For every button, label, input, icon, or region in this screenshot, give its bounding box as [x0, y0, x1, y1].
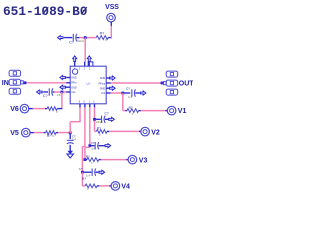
- wire U1 row4 right: [111, 92, 124, 94]
- svg-text:2: 2: [79, 68, 81, 70]
- lead R12 right: [107, 130, 109, 132]
- capacitor C3: [131, 89, 133, 96]
- off-page arrow A1 (left): [58, 36, 64, 40]
- off-page arrow A6 (right): [99, 170, 105, 174]
- resistor R12: [96, 130, 107, 134]
- wire V1 vertical: [122, 93, 124, 111]
- lead R11 right: [139, 110, 141, 112]
- connector J-V3: [128, 155, 137, 164]
- off-page arrow R2: [110, 86, 116, 90]
- wire to V2: [109, 130, 141, 132]
- lead arrow-C1: [64, 37, 72, 39]
- resistor R13: [87, 158, 99, 162]
- wire V1 corner: [123, 110, 127, 112]
- svg-text:R?: R?: [129, 106, 133, 110]
- off-page arrow L1: [60, 76, 66, 80]
- lead V3: [126, 159, 128, 161]
- wire pinA left: [70, 121, 80, 123]
- wire V5: [34, 132, 44, 134]
- resistor R11: [127, 109, 139, 113]
- svg-text:C?: C?: [91, 141, 95, 145]
- U1 pin1 indicator circle: [72, 69, 77, 74]
- svg-text:GND: GND: [71, 86, 77, 89]
- svg-text:Vc1: Vc1: [71, 91, 76, 94]
- wire V4 corner: [82, 185, 85, 187]
- connector IN box2: [9, 79, 21, 85]
- junction top: [84, 36, 87, 39]
- svg-text:R?: R?: [47, 134, 51, 138]
- U1 top pin stub 2: [84, 62, 86, 67]
- wire IN to U1: [23, 82, 66, 84]
- svg-text:OUT: OUT: [179, 81, 193, 88]
- svg-text:2: 2: [89, 68, 91, 70]
- wire C1-R1: [79, 37, 96, 39]
- arrow up pin3: [87, 56, 91, 62]
- svg-text:R?: R?: [97, 126, 101, 130]
- wire pinB down: [84, 107, 86, 147]
- wire arrow row1: [64, 77, 67, 79]
- svg-text:GND: GND: [100, 87, 106, 90]
- resistor R14: [85, 184, 97, 188]
- wire pinD down: [94, 107, 96, 131]
- lead VSS: [110, 22, 112, 27]
- svg-text:100pF: 100pF: [77, 39, 85, 43]
- wire to IC top pin: [84, 38, 86, 62]
- wire pinC down: [89, 107, 91, 147]
- wire to V3: [101, 159, 128, 161]
- lead C2 right: [53, 91, 55, 93]
- arrow up pin1: [73, 56, 77, 62]
- junction C7 node: [81, 171, 84, 174]
- resistor R5: [46, 131, 56, 135]
- capacitor C7: [91, 169, 93, 176]
- lead R1 right: [108, 37, 112, 39]
- U1 bottom pinD lead: [94, 104, 96, 108]
- svg-text:RFin: RFin: [71, 82, 77, 85]
- wire R5 to node: [58, 132, 70, 134]
- connector IN box1: [9, 70, 21, 76]
- connector OUT box1: [166, 71, 178, 77]
- U1 bottom pinC lead: [89, 104, 91, 108]
- lead C6 left: [91, 145, 94, 147]
- capacitor C2: [48, 88, 50, 95]
- lead C3 right: [135, 92, 139, 94]
- wire pinC jog: [85, 146, 90, 148]
- lead R13 right: [99, 159, 101, 161]
- wire V6: [33, 108, 46, 110]
- svg-text:V4: V4: [121, 184, 130, 191]
- capacitor C1: [72, 34, 74, 41]
- lead C7 left: [84, 171, 92, 173]
- svg-text:RFout: RFout: [99, 83, 106, 86]
- wire pinB down3: [81, 172, 83, 186]
- capacitor C5 (to gnd): [67, 139, 74, 141]
- lead R13 left: [85, 159, 87, 161]
- connector OUT box3: [166, 89, 178, 95]
- svg-text:R?: R?: [100, 32, 105, 36]
- lead V5: [30, 132, 34, 134]
- svg-text:100pF: 100pF: [96, 120, 104, 124]
- wire V2 corner: [95, 130, 97, 132]
- capacitor C6: [94, 142, 96, 149]
- svg-text:VSS: VSS: [105, 4, 119, 11]
- svg-text:0: 0: [52, 134, 54, 138]
- U1 left lead row4: [66, 91, 70, 93]
- op-amp U1 body: [70, 66, 106, 104]
- svg-text:0: 0: [91, 161, 93, 165]
- off-page arrow A3 (right): [140, 91, 146, 95]
- U1 bottom pinB lead: [84, 104, 86, 108]
- svg-text:C?: C?: [43, 94, 48, 98]
- wire pinC down2: [84, 147, 86, 159]
- lead C5 bottom: [69, 145, 71, 151]
- svg-text:IN: IN: [2, 80, 9, 87]
- wire pinA down: [79, 107, 81, 122]
- junction C4 node: [93, 118, 96, 121]
- ground: [67, 151, 73, 154]
- junction V1 node: [121, 92, 124, 95]
- lead R5 right: [56, 132, 58, 134]
- lead R11 left: [125, 110, 127, 112]
- U1 right lead row3: [106, 87, 111, 89]
- svg-text:C?: C?: [105, 111, 109, 115]
- connector J-V6: [20, 104, 29, 113]
- svg-text:V3: V3: [139, 157, 148, 164]
- off-page arrow R1: [110, 76, 116, 80]
- lead C3 left: [124, 92, 130, 94]
- svg-text:C?: C?: [126, 87, 130, 91]
- junction V5 node: [69, 131, 72, 134]
- wire to V1: [141, 110, 167, 112]
- connector J-V2: [141, 127, 150, 136]
- connector J-V5: [22, 128, 31, 137]
- connector J-V4: [111, 182, 120, 191]
- lead R14 right: [97, 185, 99, 187]
- svg-text:V6: V6: [10, 106, 19, 113]
- U1 right lead row2: [106, 82, 111, 84]
- svg-text:1nF: 1nF: [86, 174, 91, 178]
- lead C6 right: [99, 145, 105, 147]
- off-page arrow L2: [60, 85, 66, 89]
- wire V6 vertical: [61, 92, 63, 109]
- svg-text:Vc2: Vc2: [101, 92, 106, 95]
- svg-text:2: 2: [84, 68, 86, 70]
- connector OUT pin tab: [164, 81, 167, 84]
- lead R5 left: [44, 132, 46, 134]
- wire to V4: [99, 185, 111, 187]
- svg-text:R?: R?: [86, 155, 90, 159]
- lead C4 right: [105, 118, 109, 120]
- U1 left lead row3: [66, 86, 70, 88]
- U1 top bracket pin: [88, 62, 93, 66]
- connector IN box3: [9, 88, 21, 94]
- capacitor C4: [101, 116, 103, 123]
- off-page arrow A2 (left): [37, 90, 43, 94]
- resistor R6: [47, 107, 57, 111]
- svg-text:GND: GND: [71, 77, 77, 80]
- lead C7 right: [96, 171, 99, 173]
- connector OUT box2: [166, 80, 178, 86]
- svg-text:R?: R?: [82, 177, 86, 181]
- lead C5 top: [69, 134, 71, 139]
- svg-text:C?: C?: [79, 167, 83, 171]
- lead V1: [165, 110, 167, 112]
- U1 left lead row1: [66, 77, 70, 79]
- wire VSS vertical: [110, 26, 112, 38]
- svg-text:0: 0: [99, 133, 101, 137]
- wire C2 to U1: [54, 91, 66, 93]
- svg-text:0: 0: [56, 110, 58, 114]
- wire pinB down2: [81, 146, 83, 172]
- svg-text:V1: V1: [178, 108, 187, 115]
- U1 bottom pinA lead: [79, 104, 81, 108]
- off-page arrow A4 (right): [109, 117, 115, 121]
- svg-text:C?: C?: [69, 41, 74, 45]
- lead C1 right: [77, 37, 80, 39]
- connector J-VSS: [107, 13, 116, 22]
- off-page arrow A5 (right): [105, 144, 111, 148]
- lead arrow-C2: [43, 91, 48, 93]
- lead V4: [109, 185, 111, 187]
- connector IN pin tab: [21, 81, 24, 84]
- U1 left lead row2: [66, 82, 70, 84]
- wire pinA to V5 node: [69, 122, 71, 134]
- lead R6 right: [57, 108, 62, 110]
- lead V6: [29, 108, 33, 110]
- connector J-V1: [167, 106, 176, 115]
- junction OUT: [161, 82, 164, 85]
- wire U1 to OUT: [111, 82, 164, 84]
- junction IN: [24, 81, 27, 84]
- U1 right lead row4: [106, 92, 111, 94]
- U1 right lead row1: [106, 77, 111, 79]
- U1 top pin stub 3: [88, 61, 90, 66]
- junction V6 node: [61, 91, 64, 94]
- resistor R1: [96, 36, 108, 40]
- svg-text:GND: GND: [100, 77, 106, 80]
- lead V2: [139, 130, 141, 132]
- wire pinB jog: [82, 145, 85, 147]
- junction C6 node: [88, 144, 91, 147]
- junction V3 node: [84, 158, 87, 161]
- lead C4 left: [96, 118, 101, 120]
- lead R6 left: [45, 108, 47, 110]
- U1 top pin stub 1: [74, 61, 76, 66]
- svg-text:V2: V2: [151, 130, 160, 137]
- wire corner to VSS: [110, 37, 112, 38]
- svg-text:V5: V5: [10, 130, 19, 137]
- svg-text:U?: U?: [87, 82, 91, 86]
